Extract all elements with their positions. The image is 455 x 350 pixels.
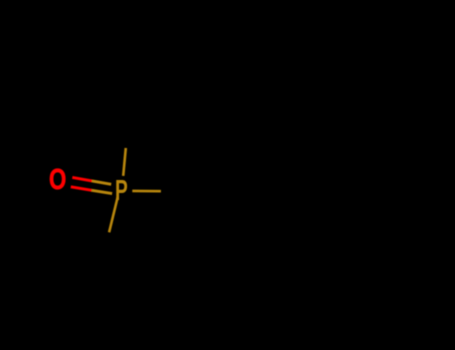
- wire: bond P to upper methyl, P half: [123, 148, 126, 176]
- wire: bond P to lower methyl, P half: [109, 197, 118, 232]
- wire: P=O double bond lower line, P half (goldenrod): [92, 190, 112, 193]
- wire: P=O double bond upper line, P half (goldenrod): [92, 181, 111, 184]
- svg-text:O: O: [49, 165, 66, 196]
- wire: P=O double bond upper line, O half (red): [72, 177, 92, 181]
- svg-text:P: P: [115, 175, 128, 207]
- wire: P=O double bond lower line, O half (red): [71, 187, 92, 191]
- wire: bond P to ring carbon (right), P half: [132, 190, 161, 193]
